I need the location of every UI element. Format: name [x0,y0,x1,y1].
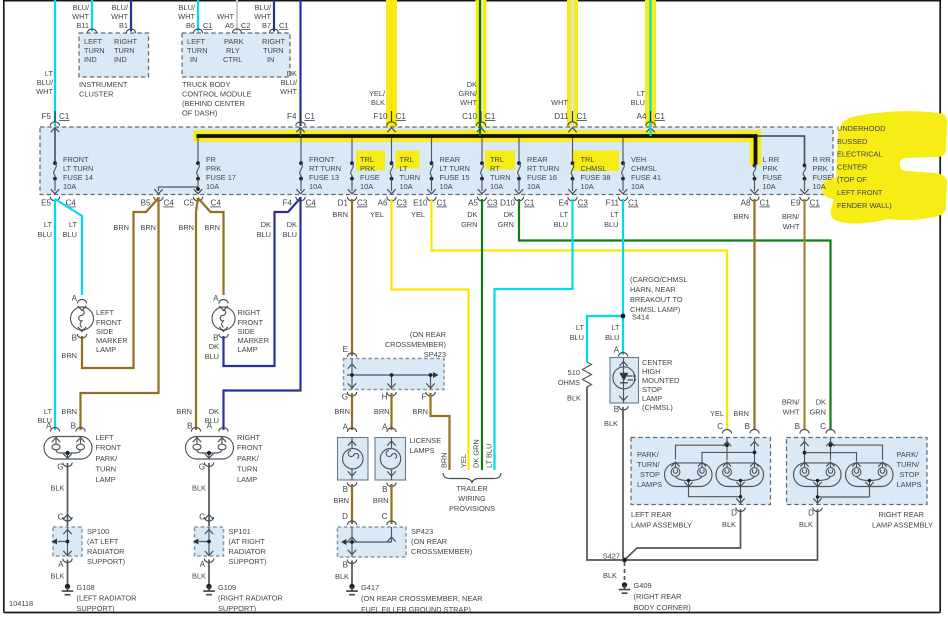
svg-text:DK: DK [209,407,219,416]
svg-text:REAR: REAR [440,155,461,164]
svg-text:C2: C2 [241,21,250,30]
fuse 17 FR PRK [154,138,236,194]
svg-text:G417: G417 [361,583,379,592]
svg-text:C1: C1 [524,199,535,208]
svg-text:LAMP: LAMP [642,394,662,403]
svg-text:BLK: BLK [51,572,65,581]
svg-text:BLK: BLK [192,484,206,493]
svg-text:RT TURN: RT TURN [309,164,341,173]
wire LT BLU S414 branch to resistor [570,316,623,362]
wire D1 BRN to SP423 [332,199,352,356]
svg-text:PRK: PRK [206,164,221,173]
svg-text:RIGHT: RIGHT [237,433,260,442]
svg-text:RIGHT: RIGHT [262,37,285,46]
svg-text:10A: 10A [581,182,594,191]
svg-text:BRN: BRN [332,210,348,219]
wire F4 DK BLU/WHT from top to UBEC [280,0,300,126]
svg-text:C4: C4 [164,199,175,208]
svg-text:FUSE 15: FUSE 15 [440,173,470,182]
svg-text:D: D [731,509,737,518]
svg-text:104118: 104118 [9,599,33,608]
wire BLK SP100 to G108 [51,560,68,585]
wire BRN left license to SP423 lower [333,484,352,524]
svg-text:PROVISIONS: PROVISIONS [449,504,495,513]
wire B7 BLU/WHT to TBCM [254,0,288,32]
svg-text:DK: DK [287,220,297,229]
right rear assembly label [799,509,933,530]
wire B6 BLU/WHT to TBCM [178,0,212,32]
svg-text:10A: 10A [309,182,322,191]
svg-text:WHT: WHT [460,98,477,107]
svg-text:C: C [820,422,826,431]
wire D10 DK GRN to right rear lamp [519,199,831,430]
wire color labels below exits [370,210,619,229]
svg-text:C1: C1 [485,112,496,121]
svg-text:C1: C1 [655,112,666,121]
svg-text:VEH: VEH [631,155,646,164]
right rear lamp 2 (park/turn/stop) [846,462,894,497]
svg-text:(RIGHT RADIATOR: (RIGHT RADIATOR [218,594,283,603]
svg-text:FRONT: FRONT [63,155,89,164]
highlighter blob over UNDERHOOD label [822,111,948,223]
svg-text:C3: C3 [578,199,589,208]
connector arc B1 [126,29,135,33]
svg-text:TURN: TURN [84,46,105,55]
svg-text:LAMPS: LAMPS [410,446,435,455]
connector C10 C1 entry [462,111,496,136]
left rear lamp 2 (park/turn/stop) [716,462,764,488]
fuse TRL PRK [348,138,380,194]
underhood bussed electrical center box [40,127,833,195]
svg-text:IN: IN [267,55,274,64]
svg-text:F4: F4 [283,199,293,208]
ground G409 [619,581,691,612]
connector D11 C1 entry [554,111,587,132]
svg-text:BLU/: BLU/ [112,3,129,12]
wire F4 branch DK BLU to right park/turn lamp [205,197,301,430]
svg-text:C10: C10 [462,112,477,121]
svg-text:C1: C1 [305,112,316,121]
svg-text:LAMP: LAMP [96,345,116,354]
svg-text:CTRL: CTRL [223,55,242,64]
connector E9 C1 exit [791,197,821,208]
svg-text:A: A [207,422,213,431]
svg-text:A: A [58,560,64,569]
svg-text:BLU: BLU [63,230,77,239]
instrument cluster module box [79,33,149,99]
power bus (black) [197,136,756,165]
svg-text:C1: C1 [203,21,212,30]
splice S427 [603,552,627,563]
svg-text:E: E [343,345,349,354]
svg-text:WHT: WHT [280,87,297,96]
svg-text:WHT: WHT [178,12,195,21]
svg-text:F4: F4 [287,112,297,121]
svg-text:FUSE 14: FUSE 14 [63,173,93,182]
wire BLK left park/turn lamp to SP100 [51,463,68,526]
svg-text:WHT: WHT [783,222,800,231]
svg-text:E10: E10 [413,199,428,208]
left front side marker lamp [71,294,128,354]
svg-text:SIDE: SIDE [238,327,255,336]
svg-text:TRUCK BODY: TRUCK BODY [182,80,231,89]
svg-text:LT: LT [44,407,53,416]
svg-text:TRL: TRL [400,155,414,164]
svg-text:B: B [213,334,218,343]
svg-text:TURN/: TURN/ [637,460,661,469]
svg-text:10A: 10A [400,182,413,191]
connector arc B6 [193,29,202,33]
svg-text:LT: LT [637,89,646,98]
svg-text:BLU: BLU [257,230,271,239]
connector E4 C3 exit [559,197,589,208]
svg-text:PARK/: PARK/ [96,454,119,463]
svg-text:B: B [343,561,348,570]
svg-text:F11: F11 [606,199,620,208]
svg-text:B: B [614,405,619,414]
svg-text:FUSE: FUSE [813,173,833,182]
right rear lamp 1 (park/turn/stop) [794,462,842,488]
svg-text:MARKER: MARKER [238,336,270,345]
svg-text:S414: S414 [632,313,649,322]
svg-text:DK: DK [287,69,297,78]
svg-text:RADIATOR: RADIATOR [87,547,125,556]
svg-text:(ON REAR: (ON REAR [410,330,446,339]
svg-text:BUSSED: BUSSED [837,137,867,146]
svg-text:LT BLU: LT BLU [485,444,494,468]
connector E10 C1 exit [413,197,447,208]
splice SP423 (upper) on rear crossmember [342,330,446,402]
fuse 41 VEH CHMSL [619,138,661,194]
svg-text:C1: C1 [810,199,821,208]
svg-text:BLK: BLK [604,419,618,428]
svg-text:CENTER: CENTER [837,162,867,171]
svg-text:PARK/: PARK/ [897,450,920,459]
svg-text:B6: B6 [186,21,195,30]
svg-text:G109: G109 [218,583,236,592]
left rear lamp 1 (park/turn/stop) [665,462,713,488]
svg-text:WHT: WHT [72,12,89,21]
svg-text:F: F [422,393,427,402]
connector A4 C1 entry [637,111,666,136]
svg-text:C4: C4 [306,199,317,208]
svg-text:PARK: PARK [224,37,244,46]
splice SP101 [193,527,267,566]
svg-text:FUSE 41: FUSE 41 [631,173,661,182]
svg-text:SP423: SP423 [424,350,446,359]
svg-text:BLU: BLU [205,352,219,361]
svg-text:DK: DK [467,210,477,219]
svg-text:STOP: STOP [640,470,660,479]
svg-text:A8: A8 [741,199,751,208]
wire E5 LT BLU to left park/turn lamp [38,199,55,430]
svg-text:LEFT: LEFT [96,433,115,442]
svg-text:BLU: BLU [631,98,645,107]
svg-text:HARN, NEAR: HARN, NEAR [630,285,676,294]
svg-text:LAMPS: LAMPS [897,480,922,489]
wire B1 BLU/WHT to instrument cluster [111,0,131,32]
svg-text:D: D [342,512,348,521]
svg-text:LT: LT [45,69,54,78]
svg-text:TRAILER: TRAILER [456,484,487,493]
label YEL C at left rear lamp [710,409,724,431]
UNDERHOOD BUSSED ELECTRICAL CENTER label [837,124,892,210]
svg-text:RADIATOR: RADIATOR [229,547,267,556]
connector A6 C3 exit [378,197,408,208]
svg-text:PRK: PRK [763,164,778,173]
wire F5 LT BLU/WHT from top to UBEC [36,0,55,126]
svg-text:BLK: BLK [722,520,736,529]
svg-text:TURN/: TURN/ [897,460,921,469]
svg-text:BLU: BLU [604,220,618,229]
svg-text:PRK: PRK [360,164,375,173]
svg-text:IN: IN [190,55,197,64]
svg-text:B: B [745,422,750,431]
svg-text:CHMSL: CHMSL [631,164,657,173]
svg-text:FENDER WALL): FENDER WALL) [837,201,892,210]
svg-text:DK: DK [261,220,271,229]
svg-text:SUPPORT): SUPPORT) [229,557,267,566]
svg-text:TURN: TURN [490,173,511,182]
wire BLK SP101 to G109 [192,560,209,585]
connector arc B7 [269,29,278,33]
svg-text:D10: D10 [500,199,515,208]
svg-text:FUSE 38: FUSE 38 [581,173,611,182]
svg-text:BRN: BRN [333,496,349,505]
svg-text:REAR: REAR [527,155,548,164]
svg-text:B: B [72,334,77,343]
svg-text:BRN: BRN [140,223,156,232]
svg-text:BLK: BLK [335,572,349,581]
connector A8 C1 exit [741,197,771,208]
wire F4 DK BLU from right side marker [205,198,301,366]
wire E9 BRN/WHT to right rear lamp [782,199,805,431]
svg-text:BRN: BRN [113,223,129,232]
svg-text:C3: C3 [487,199,498,208]
svg-text:BRN/: BRN/ [782,212,801,221]
svg-text:FRONT: FRONT [238,318,264,327]
wire BRN SP423-H to right license lamp [374,393,392,432]
svg-text:PARK/: PARK/ [637,450,660,459]
svg-text:E4: E4 [559,199,569,208]
svg-text:D1: D1 [338,199,349,208]
svg-text:LT TURN: LT TURN [63,164,93,173]
svg-text:TURN: TURN [187,46,208,55]
svg-text:OHMS: OHMS [558,378,580,387]
wire C5 branch BRN to right side marker [198,198,224,295]
svg-text:LT: LT [69,220,78,229]
svg-text:IND: IND [114,55,127,64]
svg-text:FRONT: FRONT [96,318,122,327]
svg-text:PARK/: PARK/ [237,454,260,463]
connector D1 C3 exit [338,197,368,208]
svg-text:FUSE: FUSE [763,173,783,182]
connector D10 C1 exit [500,197,535,208]
svg-text:RLY: RLY [226,46,240,55]
right license lamp [375,428,441,494]
connector F11 C1 exit [606,197,639,208]
inline connector C (right) [199,513,214,522]
connector B5 C4 exit [141,197,175,208]
highlight over TRL LT fuse label [396,151,420,169]
svg-text:TURN: TURN [400,173,421,182]
wire D11 WHT from top (highlighted) [551,0,578,136]
svg-text:B: B [382,485,387,494]
svg-text:CROSSMEMBER): CROSSMEMBER) [385,340,446,349]
svg-text:LAMP: LAMP [96,475,116,484]
svg-text:TURN: TURN [263,46,284,55]
svg-text:SUPPORT): SUPPORT) [218,604,256,613]
wire C10 DK GRN/WHT from top (highlighted) [459,0,487,136]
svg-text:C5: C5 [184,199,195,208]
wire BRN right license to SP423 lower [373,484,392,524]
svg-text:10A: 10A [763,182,776,191]
svg-text:C3: C3 [397,199,408,208]
left rear lamps internal wiring [676,438,759,463]
connector arc A5 [232,29,241,33]
wire A6 YEL to trailer provisions [392,199,469,470]
svg-text:FUSE 13: FUSE 13 [309,173,339,182]
svg-text:LAMPS: LAMPS [637,480,662,489]
fuse L RR PRK [750,155,782,194]
svg-text:FUEL FILLER GROUND STRAP): FUEL FILLER GROUND STRAP) [361,605,471,614]
svg-text:LT: LT [44,220,53,229]
svg-text:LICENSE: LICENSE [410,436,442,445]
svg-text:SUPPORT): SUPPORT) [87,557,125,566]
svg-text:BLK: BLK [799,520,813,529]
wire B11 BLU/WHT to instrument cluster [72,0,92,32]
svg-text:FUSE 17: FUSE 17 [206,173,236,182]
svg-text:C: C [717,422,723,431]
svg-text:LT TURN: LT TURN [440,164,470,173]
svg-text:RIGHT: RIGHT [238,308,261,317]
svg-text:GRN: GRN [498,220,514,229]
fuse 15 REAR LT TURN [427,138,470,194]
fuse TRL LT TURN [387,138,420,194]
svg-text:BLU: BLU [605,333,619,342]
svg-text:BRN: BRN [733,212,749,221]
connector A5 C3 exit [468,197,498,208]
svg-text:FRONT: FRONT [309,155,335,164]
center high mounted stop lamp (CHMSL) [610,353,679,415]
svg-text:DK: DK [467,80,477,89]
svg-text:F5: F5 [42,112,52,121]
svg-text:BLU: BLU [38,230,52,239]
splice SP423 (lower) on rear crossmember [338,521,473,564]
wire C5 BRN to right park/turn lamp [176,198,198,430]
wire E4 LT BLU to trailer provisions [495,199,573,470]
left rear lamps common ground wire [689,488,746,512]
svg-text:L RR: L RR [763,155,780,164]
inline connector C (left) [58,513,73,522]
svg-text:A6: A6 [378,199,388,208]
svg-text:B: B [71,422,76,431]
svg-text:BODY CORNER): BODY CORNER) [634,603,691,612]
svg-text:C1: C1 [59,112,70,121]
truck body control module box [182,33,290,118]
svg-text:WIRING: WIRING [458,494,486,503]
wire BLK resistor to S427 [587,387,622,560]
svg-text:BRN: BRN [61,407,77,416]
svg-text:BRN: BRN [373,496,389,505]
svg-text:FRONT: FRONT [237,443,263,452]
connector arc B11 [87,29,96,33]
svg-text:E5: E5 [41,199,51,208]
svg-text:SP100: SP100 [87,527,109,536]
svg-text:SP101: SP101 [229,527,251,536]
svg-text:BRN: BRN [61,351,77,360]
svg-text:LT: LT [610,210,619,219]
right rear lamp assembly box [787,430,928,505]
svg-text:OF DASH): OF DASH) [182,109,217,118]
wire A4 LT BLU from top (highlighted) [631,0,656,136]
wire BRN SP423-G to left license lamp [334,393,352,432]
svg-text:YEL: YEL [411,210,425,219]
fuse 14 FRONT LT TURN [51,128,94,194]
right front park/turn lamp [186,422,263,485]
svg-text:B5: B5 [141,199,151,208]
svg-text:YEL: YEL [459,454,468,468]
svg-text:C1: C1 [279,21,288,30]
svg-text:CROSSMEMBER): CROSSMEMBER) [411,547,472,556]
ground G109 [203,583,283,613]
wire A5 WHT to TBCM [217,0,250,32]
svg-text:TRL: TRL [490,155,504,164]
svg-text:BLK: BLK [371,98,385,107]
svg-text:BRN: BRN [733,409,749,418]
svg-text:LEFT FRONT: LEFT FRONT [837,188,883,197]
wire BRN SP423-F to trailer provisions [412,393,449,470]
svg-text:(CHMSL): (CHMSL) [642,403,673,412]
svg-text:RT: RT [490,164,500,173]
resistor 510 ohms [558,362,592,403]
wire from bus to R RR PRK fuse [756,136,805,165]
svg-text:SUPPORT): SUPPORT) [77,604,115,613]
svg-text:LT: LT [560,210,569,219]
splice SP100 [52,527,126,566]
svg-text:BRN/: BRN/ [782,398,801,407]
svg-text:DK GRN: DK GRN [472,439,481,468]
fuse 16 REAR RT TURN [515,138,559,194]
svg-text:10A: 10A [527,182,540,191]
svg-text:LEFT: LEFT [84,37,103,46]
svg-text:YEL/: YEL/ [369,89,386,98]
svg-text:BLK: BLK [603,571,617,580]
svg-text:G108: G108 [77,583,95,592]
svg-text:BRN: BRN [440,452,449,468]
svg-text:S427: S427 [603,552,620,561]
highlight over TRL CHMSL fuse label [572,151,619,172]
wire BLK SP423 to G417 [335,561,352,585]
svg-text:BLK: BLK [192,572,206,581]
svg-text:WHT: WHT [36,87,53,96]
svg-text:CHMSL: CHMSL [581,164,607,173]
highlight over TRL RT fuse label [485,151,515,170]
svg-text:10A: 10A [440,182,453,191]
svg-text:LAMP ASSEMBLY: LAMP ASSEMBLY [631,521,692,530]
svg-text:LAMP: LAMP [238,345,258,354]
connector E5 C4 exit [41,197,76,208]
svg-text:MOUNTED: MOUNTED [642,376,679,385]
svg-text:BLU/: BLU/ [281,78,298,87]
left rear assembly label [631,509,737,530]
connector F4 C1 entry [287,111,315,136]
splice S414 [621,275,688,322]
svg-text:TURN: TURN [237,465,258,474]
svg-text:WHT: WHT [783,408,800,417]
svg-text:BLU/: BLU/ [37,78,54,87]
svg-text:FUSE: FUSE [360,173,380,182]
